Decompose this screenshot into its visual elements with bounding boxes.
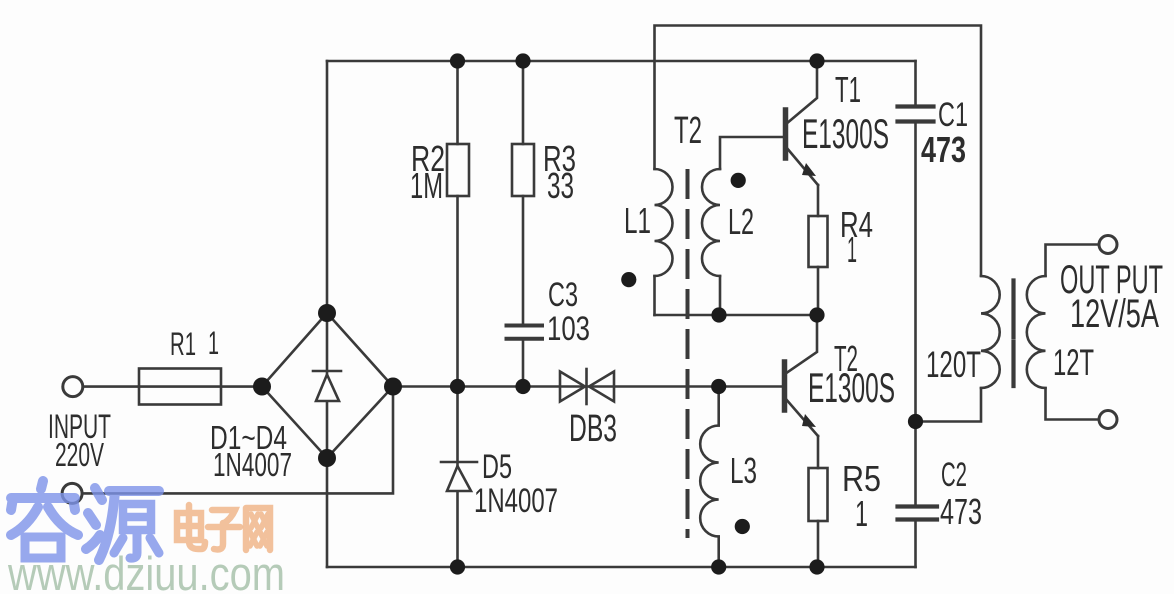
diac DB3	[560, 369, 614, 404]
wire T2 collector	[785, 315, 817, 374]
watermark dian character	[177, 505, 205, 549]
node top rail R3	[515, 53, 530, 68]
terminal input bottom	[62, 483, 82, 503]
svg-text:R1: R1	[170, 326, 196, 362]
svg-text:1: 1	[208, 325, 219, 361]
node bottom rail L3	[711, 559, 726, 574]
svg-text:L2: L2	[728, 201, 754, 242]
svg-text:DB3: DB3	[569, 408, 617, 450]
svg-text:12V/5A: 12V/5A	[1070, 292, 1159, 336]
polarity dot L1	[621, 272, 636, 287]
inductor L1 winding	[655, 169, 673, 276]
wire mid rail	[393, 385, 783, 388]
resistor R5	[809, 468, 828, 521]
svg-text:D5: D5	[482, 448, 512, 486]
svg-text:E1300S: E1300S	[808, 364, 895, 411]
node mid rail C3	[515, 379, 530, 394]
wire R2 to mid rail	[456, 196, 459, 387]
wire bottom rail	[327, 566, 916, 569]
terminal output bottom	[1099, 411, 1117, 429]
node bottom rail R5	[809, 559, 824, 574]
node top rail R2	[450, 53, 465, 68]
svg-text:120T: 120T	[926, 344, 981, 385]
wire bridge bottom to rail	[326, 458, 329, 567]
wire top frame	[655, 26, 982, 277]
watermark zi character	[208, 510, 240, 549]
svg-text:T2: T2	[674, 110, 702, 152]
wire 12T top lead	[1046, 245, 1100, 277]
wire T1 emitter to R4	[817, 185, 820, 216]
bridge rectifier D1~D4	[262, 313, 393, 458]
wire R3 to C3	[522, 196, 525, 323]
svg-text:L3: L3	[730, 450, 757, 491]
wire R4 to bus	[817, 267, 820, 315]
wire T2 emitter to R5	[817, 436, 820, 468]
node bridge bottom	[318, 449, 336, 467]
inductor L3 winding	[700, 426, 718, 537]
terminal output top	[1099, 236, 1117, 254]
svg-text:E1300S: E1300S	[802, 110, 889, 157]
svg-text:1N4007: 1N4007	[213, 446, 292, 483]
node bridge left	[253, 378, 271, 396]
svg-text:473: 473	[921, 129, 966, 170]
polarity dot L2	[731, 173, 746, 188]
wire R1 to bridge	[139, 385, 262, 388]
wire C bus upper	[914, 61, 917, 104]
svg-text:103: 103	[547, 310, 590, 348]
node R4 bus	[809, 307, 824, 322]
polarity dot L3	[735, 519, 750, 534]
svg-text:C2: C2	[941, 456, 967, 494]
svg-text:L1: L1	[624, 200, 651, 241]
wire 12T bottom lead	[1046, 388, 1100, 420]
resistor R4	[809, 216, 828, 267]
transformer secondary 12T winding	[1027, 276, 1046, 388]
wire C3 to mid rail	[522, 341, 525, 387]
svg-text:1: 1	[855, 493, 868, 534]
node bridge top	[318, 304, 336, 322]
wire input live lead	[83, 385, 139, 388]
transistor T1	[786, 110, 819, 185]
node mid rail D5	[450, 379, 465, 394]
wire L2 bottom bus	[655, 314, 818, 317]
wire R5 to bottom rail	[817, 521, 820, 567]
terminal input top	[63, 377, 83, 397]
svg-text:1M: 1M	[410, 165, 443, 206]
watermark wang character	[246, 508, 270, 550]
wire C bus middle	[914, 124, 917, 504]
wire bridge top feed	[326, 61, 329, 313]
svg-text:473: 473	[940, 491, 982, 532]
wire input neutral lead	[83, 387, 393, 494]
svg-text:33: 33	[547, 165, 574, 206]
wire L1 lower lead	[653, 276, 656, 315]
resistor R2	[447, 144, 469, 196]
node mid rail L3	[711, 379, 726, 394]
wire R2 branch	[456, 61, 459, 144]
svg-text:T1: T1	[835, 69, 861, 110]
svg-text:12T: 12T	[1053, 342, 1094, 383]
node L2 bus	[711, 307, 726, 322]
transistor T2	[785, 362, 819, 436]
transformer T2 core	[686, 171, 690, 536]
diode D5	[441, 462, 477, 491]
wire top rail	[327, 60, 916, 63]
resistor R1	[139, 369, 221, 405]
wire L2 lower lead	[719, 276, 722, 315]
watermark yuan character	[86, 488, 159, 560]
wire L3 bottom lead	[717, 537, 720, 568]
wire 120T bottom lead	[916, 388, 982, 422]
output transformer core	[1011, 281, 1015, 387]
node top rail T1 collector	[809, 53, 824, 68]
wire D5 branch	[456, 387, 459, 568]
watermark rong character	[11, 481, 78, 558]
node bridge right	[384, 378, 402, 396]
capacitor C1	[898, 107, 934, 122]
wire R3 branch	[522, 61, 525, 144]
node C bus 120T	[908, 414, 923, 429]
wire L3 top lead	[717, 387, 720, 426]
svg-text:220V: 220V	[55, 436, 104, 473]
svg-text:1N4007: 1N4007	[474, 482, 558, 520]
wire L2 top lead to T1 base	[720, 137, 783, 169]
wire C bus lower	[914, 522, 917, 567]
svg-text:C3: C3	[548, 276, 578, 314]
resistor R3	[512, 144, 534, 196]
wire T1 collector	[786, 61, 817, 124]
transformer primary 120T winding	[981, 276, 1000, 388]
svg-text:www.dziuu.com: www.dziuu.com	[7, 547, 285, 594]
capacitor C3	[507, 326, 543, 339]
node bottom rail D5	[450, 559, 465, 574]
inductor L2 winding	[702, 169, 720, 276]
capacitor C2	[898, 507, 938, 520]
svg-text:1: 1	[847, 229, 857, 270]
